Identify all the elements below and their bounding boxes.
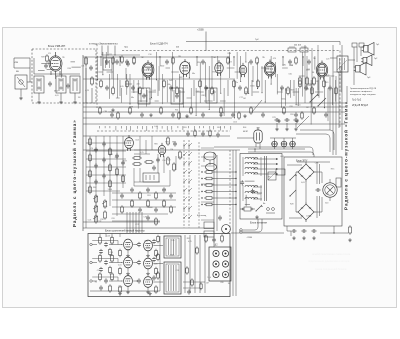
- wire pickup 3: [114, 46, 116, 56]
- svg-text:R93: R93: [183, 127, 186, 129]
- wire stub: [282, 56, 284, 66]
- capacitor Cb5: [131, 85, 135, 90]
- wire row lower: [112, 220, 160, 222]
- mains switch: [256, 205, 262, 211]
- svg-text:0,05: 0,05: [107, 235, 111, 237]
- resistor Rf14: [116, 167, 119, 176]
- resistor Rd20: [220, 106, 223, 115]
- capacitor Cg4: [162, 187, 166, 192]
- svg-text:подключения динамиков и мотора: подключения динамиков и мотора: [308, 260, 350, 263]
- wire row: [86, 190, 120, 192]
- loudspeaker Gr1: [362, 43, 374, 56]
- pickup knob: [222, 225, 231, 234]
- ground: [37, 100, 41, 104]
- switch stub wire: [201, 165, 214, 167]
- svg-text:Блок УКВ-ИП: Блок УКВ-ИП: [48, 44, 65, 48]
- wire plate to transformer: [330, 57, 337, 59]
- wire: [29, 58, 31, 82]
- wire stub: [199, 126, 201, 128]
- capacitor Cg8: [154, 207, 158, 212]
- motor start resistor: [336, 178, 341, 187]
- resistor R93: [186, 266, 189, 275]
- wire: [261, 67, 269, 69]
- svg-text:УКВ: УКВ: [14, 62, 19, 64]
- svg-text:6800: 6800: [290, 89, 294, 91]
- wire vertical in amp: [159, 236, 161, 291]
- wire: [286, 226, 288, 231]
- capacitor Ca10: [201, 59, 205, 64]
- wire row: [86, 182, 126, 184]
- svg-text:6800: 6800: [250, 86, 254, 88]
- ground: [295, 119, 299, 123]
- svg-text:5600: 5600: [108, 189, 112, 191]
- svg-text:Вк: Вк: [263, 203, 265, 205]
- resistor R5b: [133, 56, 136, 65]
- output transformer Tr4: [164, 262, 181, 294]
- bus wire 222: [83, 221, 160, 223]
- dial lamp L2: [281, 141, 287, 147]
- tube La9 triode: [158, 143, 166, 157]
- wire between bridges: [305, 182, 307, 202]
- svg-text:C98: C98: [315, 163, 318, 165]
- wire: [316, 171, 322, 173]
- junction node: [262, 92, 263, 93]
- resistor R80: [349, 225, 352, 235]
- svg-text:R58: R58: [289, 65, 292, 67]
- wire: [220, 100, 226, 102]
- potentiometer tone high: [95, 214, 98, 224]
- resistor R25: [299, 76, 302, 86]
- wire: [302, 52, 304, 97]
- capacitor Cg6: [138, 207, 142, 212]
- wire: [327, 88, 329, 121]
- junction node: [133, 92, 134, 93]
- svg-text:1М: 1М: [312, 72, 315, 74]
- svg-text:C59: C59: [171, 240, 174, 242]
- switch SA3: [318, 98, 326, 106]
- speaker wire 3: [360, 47, 362, 56]
- svg-text:R37: R37: [123, 161, 126, 163]
- antenna input connector: [15, 75, 27, 89]
- wire: [235, 71, 241, 73]
- resistor Rh4: [204, 197, 214, 200]
- capacitor Cd27: [261, 112, 265, 117]
- capacitor Cg10: [146, 215, 150, 220]
- resistor Rg9: [163, 199, 166, 208]
- right bus wire 1: [332, 45, 334, 155]
- wire top of cans: [34, 73, 80, 75]
- wire: [117, 241, 119, 245]
- resistor Rf12: [109, 179, 112, 188]
- capacitor Cf9: [102, 157, 106, 162]
- ground: [118, 292, 122, 296]
- capacitor Cf15: [121, 160, 125, 165]
- svg-text:Громкоговорители 2ГД-28: Громкоговорители 2ГД-28: [350, 88, 377, 90]
- capacitor C310: [240, 180, 244, 185]
- coil can 3: [70, 76, 80, 93]
- resistor Ri22: [111, 272, 114, 281]
- svg-text:6800: 6800: [217, 72, 221, 74]
- svg-text:C24: C24: [92, 150, 95, 152]
- wire: [131, 91, 137, 93]
- wire: [151, 136, 153, 150]
- mains plug pin 1: [240, 229, 243, 232]
- wire: [134, 185, 170, 187]
- top right cluster in amp block: [205, 234, 208, 243]
- wire: [125, 68, 127, 79]
- wire: [255, 143, 257, 147]
- node row 4: [201, 191, 202, 192]
- resistor Rd25: [250, 106, 253, 115]
- capacitor C70: [187, 289, 191, 294]
- wire: [236, 52, 238, 79]
- tube La3 6K4P: [180, 59, 190, 77]
- output transformer Tr2: [337, 56, 348, 72]
- vertical trunk wire 1: [232, 150, 234, 296]
- wire stub: [194, 126, 196, 130]
- resistor Rd35: [313, 106, 316, 115]
- resistor Rc10: [176, 86, 179, 95]
- svg-text:Блок усилителей низкой частоты: Блок усилителей низкой частоты: [105, 229, 145, 233]
- node row 2: [201, 178, 202, 179]
- wire bridge link: [295, 172, 297, 212]
- svg-text:R75: R75: [272, 117, 275, 119]
- node row 6: [201, 204, 202, 205]
- wires into amplifier block: [126, 212, 128, 233]
- connector Sh4: [288, 48, 296, 52]
- bus wire 136: [83, 135, 230, 137]
- wire: [85, 68, 87, 103]
- capacitor C9b: [126, 61, 130, 66]
- ground: [348, 238, 352, 242]
- tube La11 channel 1 stage 1: [124, 239, 133, 250]
- wire to R load: [320, 232, 348, 234]
- wire: [175, 156, 177, 170]
- electrolytic capacitor C31: [284, 118, 289, 122]
- svg-text:~220В: ~220В: [246, 237, 253, 239]
- svg-text:10,0: 10,0: [207, 277, 211, 279]
- resistor Rg15: [121, 205, 124, 214]
- resistor Rf8: [109, 147, 112, 156]
- wire: [163, 156, 165, 173]
- wire: [283, 138, 285, 141]
- capacitor Cf3: [94, 163, 98, 168]
- wire: [293, 91, 300, 93]
- ground: [219, 113, 223, 117]
- resistor Rb24: [299, 79, 302, 88]
- junction node: [209, 109, 210, 110]
- wire: [245, 204, 250, 206]
- coil can 1: [34, 76, 44, 93]
- svg-text:C56: C56: [310, 89, 313, 91]
- capacitor Cd12: [171, 112, 175, 117]
- bottom wire in amp block: [90, 290, 160, 292]
- capacitor C313: [251, 189, 255, 194]
- svg-text:R90: R90: [186, 117, 189, 119]
- junction node: [324, 107, 325, 108]
- wire: [13, 58, 15, 68]
- resistor Re33: [301, 111, 304, 120]
- resistor Rc18: [245, 86, 248, 95]
- capacitor Ci01: [104, 242, 108, 247]
- right bus wire 3: [338, 72, 340, 128]
- wire stub: [177, 126, 179, 128]
- junction node: [234, 117, 235, 118]
- tube La16 channel 3 stage 2: [144, 277, 153, 288]
- wire: [214, 197, 236, 199]
- wire: [91, 88, 93, 103]
- svg-text:51к: 51к: [98, 221, 101, 223]
- wire: [275, 62, 277, 77]
- svg-text:C26: C26: [111, 218, 114, 220]
- capacitor Cg0: [130, 187, 134, 192]
- wire stub: [209, 126, 211, 129]
- wire stub: [196, 56, 198, 66]
- mains plug: [267, 208, 270, 211]
- svg-text:0,05: 0,05: [154, 263, 158, 265]
- wire: [179, 74, 181, 119]
- capacitor Cd22: [231, 112, 235, 117]
- svg-text:R98: R98: [130, 106, 133, 108]
- resistor Rc14: [211, 86, 214, 95]
- wire in EPU 4: [319, 196, 321, 216]
- capacitor Cd17: [201, 112, 205, 117]
- wire: [220, 62, 222, 93]
- right bus wire 5: [329, 77, 331, 130]
- wire: [266, 212, 275, 214]
- wire row: [86, 142, 126, 144]
- svg-text:R31: R31: [147, 195, 150, 197]
- wire: [157, 154, 159, 173]
- wire pickup 2: [107, 46, 109, 56]
- svg-text:R23: R23: [167, 160, 170, 162]
- svg-text:R18: R18: [197, 62, 200, 64]
- capacitor C9a: [115, 59, 119, 64]
- svg-text:120к: 120к: [217, 127, 221, 129]
- svg-text:R51: R51: [175, 110, 178, 112]
- node row 1: [201, 171, 202, 172]
- wire: [245, 180, 255, 182]
- svg-text:5600: 5600: [160, 66, 164, 68]
- junction node: [137, 244, 138, 245]
- wire amp to EPU: [231, 232, 284, 234]
- wire stub: [121, 126, 123, 129]
- wire stub: [227, 80, 229, 96]
- wire: [175, 80, 177, 92]
- junction node: [257, 88, 258, 89]
- svg-text:0,01: 0,01: [297, 104, 301, 106]
- svg-text:C91: C91: [81, 65, 84, 67]
- switch SA4 wire: [252, 100, 262, 112]
- electrolytic capacitor C30: [274, 118, 279, 122]
- junction node: [122, 281, 123, 282]
- svg-text:Блок КСДВ-ПЧ: Блок КСДВ-ПЧ: [150, 42, 168, 46]
- svg-text:C86: C86: [325, 194, 328, 196]
- resistor Rd5: [129, 106, 132, 115]
- junction node: [102, 74, 103, 75]
- ground: [185, 114, 189, 118]
- wire column: [109, 136, 111, 206]
- svg-text:0,05: 0,05: [233, 121, 237, 123]
- svg-text:Гр1-Гр2: Гр1-Гр2: [352, 98, 362, 102]
- capacitor Cf7: [102, 141, 106, 146]
- resistor Rc6: [139, 86, 142, 95]
- plate supply wire 3: [317, 45, 319, 90]
- wire: [211, 56, 213, 89]
- band switch column 3: [198, 142, 200, 228]
- switch stub wire: [201, 156, 214, 158]
- mains cord: [243, 219, 258, 230]
- wire: [335, 80, 337, 102]
- junction node: [245, 62, 246, 63]
- electrolytic capacitor C32: [293, 118, 298, 122]
- svg-text:R86: R86: [147, 69, 150, 71]
- wire: [139, 136, 141, 158]
- svg-text:C20: C20: [126, 250, 129, 252]
- capacitor C1: [44, 63, 48, 68]
- band switch columns: [183, 140, 185, 228]
- wire: [227, 67, 235, 69]
- ground: [19, 96, 23, 100]
- wire: [105, 52, 107, 65]
- terminal strip 1: [352, 43, 357, 47]
- left chassis bus wire: [82, 55, 84, 231]
- capacitor C63: [311, 229, 316, 233]
- svg-text:6Е1П: 6Е1П: [243, 131, 249, 133]
- junction node: [220, 93, 221, 94]
- junction node: [151, 97, 152, 98]
- lamp top wire: [270, 137, 296, 139]
- svg-text:R78: R78: [326, 75, 329, 77]
- resistor Rg11: [155, 217, 158, 226]
- resistor Rg5: [131, 199, 134, 208]
- svg-text:C66: C66: [220, 282, 223, 284]
- capacitor Ci03: [99, 249, 103, 254]
- wire top in EPU: [287, 164, 302, 166]
- resistor Ri02: [111, 236, 114, 245]
- wire: [145, 88, 147, 107]
- svg-text:C84: C84: [104, 111, 107, 113]
- speaker wire 1: [353, 47, 355, 85]
- capacitor Cf5: [94, 179, 98, 184]
- wire: [98, 71, 102, 73]
- fuse Pr1: [244, 207, 251, 211]
- svg-text:300: 300: [325, 203, 328, 205]
- wire stub: [219, 126, 221, 131]
- wire: [60, 67, 62, 78]
- svg-text:Ш3 выход: Ш3 выход: [197, 215, 207, 217]
- junction node: [122, 244, 123, 245]
- capacitor Cb29: [328, 85, 332, 90]
- capacitor Cg2: [146, 187, 150, 192]
- capacitor C48: [156, 157, 160, 162]
- svg-text:R19: R19: [290, 114, 293, 116]
- main chassis dashed border top: [122, 50, 340, 52]
- resistor Ri04: [155, 249, 158, 258]
- wire stub: [136, 126, 138, 129]
- IF transformer can 2: [171, 88, 183, 104]
- wire channel top: [92, 276, 118, 278]
- coupling capacitor Ci12: [137, 260, 141, 265]
- wire: [120, 88, 122, 103]
- connector pin: [213, 271, 219, 277]
- capacitor Ca4: [125, 59, 129, 64]
- svg-text:150: 150: [144, 95, 147, 97]
- IF transformer can 3: [206, 88, 217, 103]
- wire feed: [119, 234, 121, 238]
- tube La2 6I1P: [142, 60, 154, 79]
- resistor Rh5: [204, 203, 214, 206]
- resistor Rf0: [89, 137, 92, 146]
- svg-text:0,25: 0,25: [140, 152, 144, 154]
- resistor Ra11: [227, 56, 230, 65]
- bus wire 112: [83, 111, 345, 113]
- wire: [116, 74, 118, 98]
- capacitor Ca1: [105, 59, 109, 64]
- resistor Re3: [117, 111, 120, 120]
- resistor Rd30: [283, 106, 286, 115]
- svg-text:Ш4 Ш5: Ш4 Ш5: [294, 45, 302, 47]
- svg-text:R46: R46: [151, 65, 154, 67]
- wire: [217, 56, 219, 75]
- wire: [38, 93, 40, 100]
- switch stub wire: [201, 147, 214, 149]
- wire to indicator tube: [237, 137, 254, 139]
- bottom bus wire of preamp: [83, 227, 214, 229]
- wire: [277, 91, 283, 93]
- svg-text:включены синфазно с: включены синфазно с: [350, 90, 373, 93]
- resistor Ri11: [99, 254, 102, 263]
- coil can 2: [56, 76, 66, 93]
- wire: [240, 56, 242, 81]
- svg-text:R90: R90: [154, 144, 157, 146]
- wire to output transformer: [153, 281, 163, 283]
- speed switch 2: [290, 190, 296, 196]
- choke hatched: [268, 172, 276, 180]
- wire: [116, 97, 120, 99]
- wire: [199, 62, 201, 103]
- wire: [257, 62, 259, 89]
- wire: [155, 100, 159, 102]
- resistor Ri14: [155, 267, 158, 276]
- wire: [139, 168, 141, 182]
- resistor Ri06: [157, 235, 160, 244]
- wire: [213, 231, 215, 247]
- tube La15 channel 3 stage 1: [124, 276, 133, 287]
- junction node: [122, 262, 123, 263]
- resistor R58: [167, 156, 170, 166]
- junction node: [253, 81, 254, 82]
- wire stub: [142, 126, 144, 129]
- EPU block border: [284, 157, 342, 226]
- resistor Ri15: [109, 266, 112, 275]
- wire: [214, 184, 236, 186]
- wire winding right 2: [260, 185, 262, 201]
- wire: [47, 69, 57, 71]
- capacitor Cd7: [140, 112, 144, 117]
- wire stub: [98, 126, 100, 128]
- resistor Rg7: [147, 199, 150, 208]
- junction node: [217, 75, 218, 76]
- wire stub: [302, 56, 304, 66]
- wire: [306, 56, 308, 90]
- svg-text:R53: R53: [187, 238, 190, 240]
- bracket wire: [346, 86, 348, 104]
- ground: [148, 292, 152, 296]
- wire: [205, 62, 207, 97]
- svg-text:0,01: 0,01: [55, 95, 59, 97]
- wire stub: [109, 126, 111, 128]
